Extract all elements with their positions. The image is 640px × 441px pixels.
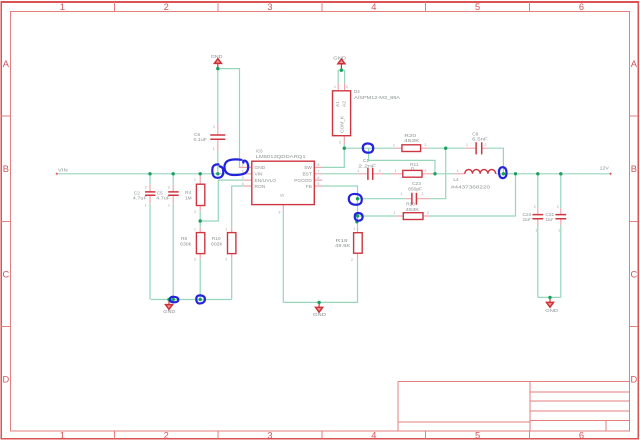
svg-text:D4: D4: [354, 89, 360, 95]
svg-text:1: 1: [457, 169, 459, 173]
svg-text:#4437368220: #4437368220: [451, 185, 490, 191]
svg-text:49.9K: 49.9K: [335, 243, 351, 249]
svg-text:2: 2: [346, 85, 348, 89]
svg-text:0.1uF: 0.1uF: [194, 137, 208, 143]
wire D4 gnd loop: [338, 70, 344, 83]
diode D4 box: [333, 91, 351, 136]
highlight blob FB-R18 junction: [355, 213, 363, 221]
highlight blob R8 junction: [196, 295, 205, 303]
frame row ticks right: [630, 116, 639, 326]
svg-text:1: 1: [60, 430, 65, 440]
svg-text:A: A: [631, 59, 638, 69]
svg-text:R13: R13: [406, 202, 415, 208]
highlight blob IC pins: [224, 159, 248, 175]
svg-text:1: 1: [168, 204, 170, 208]
svg-text:3: 3: [339, 141, 341, 145]
svg-text:SW: SW: [304, 165, 312, 171]
svg-text:6: 6: [579, 2, 584, 12]
svg-text:4: 4: [371, 430, 376, 440]
svg-text:B: B: [3, 164, 9, 174]
svg-text:1: 1: [353, 227, 355, 231]
svg-text:1: 1: [393, 143, 395, 147]
wire C24 branch: [537, 174, 539, 298]
svg-text:2: 2: [213, 125, 215, 129]
wire SW row to R20: [344, 147, 395, 149]
highlight blob GND bus left: [170, 297, 178, 303]
capacitor C23 plates: [412, 193, 417, 205]
svg-text:D: D: [630, 374, 637, 384]
svg-text:5: 5: [475, 430, 480, 440]
wire C2 branch: [149, 174, 151, 300]
svg-text:C1: C1: [363, 158, 369, 164]
svg-text:3: 3: [267, 430, 272, 440]
pin stubs R20: [395, 147, 428, 149]
svg-text:2: 2: [194, 258, 196, 262]
svg-text:2: 2: [379, 169, 381, 173]
pin stubs R4: [199, 174, 201, 211]
ground GND2 stub: [340, 64, 342, 70]
ground GND4 stub: [318, 302, 320, 307]
svg-text:A2: A2: [342, 101, 348, 107]
svg-text:2: 2: [422, 192, 424, 196]
resistor R11: [403, 170, 422, 177]
svg-text:1: 1: [395, 169, 397, 173]
capacitor C2 plates: [145, 192, 156, 195]
pin stubs C9: [465, 147, 488, 149]
title block: [398, 382, 630, 431]
svg-text:1: 1: [60, 2, 65, 12]
svg-text:EN/UVLO: EN/UVLO: [255, 178, 277, 184]
svg-text:C: C: [2, 269, 9, 279]
svg-text:3: 3: [267, 2, 272, 12]
svg-text:RON: RON: [255, 184, 266, 190]
svg-text:4: 4: [371, 2, 376, 12]
ground GND2 triangle: [338, 59, 345, 64]
wire C1 to R11: [384, 173, 392, 175]
svg-text:C: C: [630, 269, 637, 279]
svg-text:L4: L4: [453, 177, 459, 183]
svg-text:GND: GND: [255, 165, 266, 171]
wire C31 branch: [560, 174, 562, 298]
node 12V tick: [609, 173, 612, 176]
svg-text:1: 1: [466, 143, 468, 147]
wire C6 top: [217, 69, 219, 123]
frame row ticks left: [1, 116, 10, 326]
pin stubs R10: [231, 227, 233, 258]
svg-text:FB: FB: [306, 184, 312, 190]
ground GND1 triangle: [214, 59, 221, 64]
svg-text:BST: BST: [302, 172, 311, 178]
ground GND5 triangle: [547, 302, 554, 307]
wire output GND bus: [538, 296, 561, 298]
ground GND1 stub: [217, 64, 219, 69]
ground GND4 triangle: [316, 307, 323, 312]
wire bottom GND bus left: [150, 298, 232, 300]
pin stubs IC6 left: [239, 167, 252, 186]
svg-text:1: 1: [358, 169, 360, 173]
svg-text:GND: GND: [163, 309, 176, 315]
wire SW to D4: [322, 148, 344, 167]
svg-text:2: 2: [168, 186, 170, 190]
svg-text:COM_K: COM_K: [340, 115, 346, 133]
ground GND5 stub: [549, 297, 551, 302]
svg-text:R10: R10: [212, 236, 221, 242]
op-amp IC6 box: [252, 161, 314, 204]
resistor R10: [228, 233, 236, 254]
capacitor C24 plates: [532, 215, 543, 219]
svg-text:A1: A1: [335, 101, 341, 107]
svg-text:7: 7: [318, 170, 320, 174]
svg-text:2: 2: [427, 211, 429, 215]
pin stubs C1: [357, 173, 383, 175]
wire SW branch to L4 node: [369, 148, 435, 174]
pin stubs C24: [537, 208, 539, 225]
svg-text:GND: GND: [333, 55, 347, 61]
svg-text:12V: 12V: [600, 165, 610, 171]
wire IC pad drop: [282, 213, 284, 303]
svg-text:1: 1: [242, 163, 244, 167]
svg-text:2: 2: [164, 2, 169, 12]
wire C9 to output: [488, 148, 503, 174]
pin stub IC6 pad: [282, 205, 284, 213]
pin stubs R18: [357, 228, 359, 259]
svg-text:2: 2: [425, 143, 427, 147]
svg-text:2.2nF: 2.2nF: [358, 163, 376, 169]
pin stubs C5: [172, 184, 174, 203]
svg-text:1: 1: [394, 211, 396, 215]
svg-text:B: B: [631, 164, 637, 174]
highlight blob C6 junction: [212, 164, 223, 177]
ground GND3 triangle: [166, 305, 173, 310]
wire C23 to FB node: [358, 198, 406, 200]
wire FB route: [322, 186, 357, 228]
frame column ticks bottom: [114, 431, 529, 439]
svg-text:2: 2: [557, 205, 559, 209]
wire BST to C1: [322, 173, 357, 175]
svg-text:A: A: [3, 59, 10, 69]
frame column ticks top: [114, 2, 529, 12]
pin stubs IC6 right: [314, 167, 322, 186]
wire D4 drain stub: [343, 145, 345, 149]
wire R11 to L4: [433, 173, 454, 175]
svg-text:D: D: [2, 374, 9, 384]
svg-text:453K: 453K: [404, 138, 421, 144]
pin stubs R13: [396, 215, 430, 217]
resistor R4: [196, 184, 204, 205]
svg-text:1: 1: [535, 229, 537, 233]
wire R8 branch: [199, 221, 201, 300]
highlight blob SW wire: [363, 143, 373, 152]
wire GND1 to IC GND pin: [218, 69, 244, 168]
svg-text:2: 2: [225, 258, 227, 262]
svg-text:VIN: VIN: [58, 168, 68, 174]
wire C23 riser: [430, 148, 446, 199]
svg-text:2: 2: [425, 169, 427, 173]
capacitor C5 plates: [168, 192, 179, 195]
svg-text:0: 0: [411, 166, 414, 172]
svg-text:R4: R4: [185, 190, 191, 196]
svg-text:6.5nF: 6.5nF: [472, 136, 488, 142]
svg-text:2: 2: [194, 210, 196, 214]
svg-text:LM5013QDDARQ1: LM5013QDDARQ1: [256, 154, 306, 160]
svg-text:GND: GND: [211, 54, 223, 60]
svg-text:S: S: [280, 194, 286, 197]
resistor R20: [402, 145, 421, 152]
svg-text:1: 1: [145, 204, 147, 208]
resistor R18: [354, 233, 363, 254]
resistor R13: [403, 213, 423, 220]
svg-text:1: 1: [194, 228, 196, 232]
svg-text:602k: 602k: [211, 241, 223, 247]
wire R20 to C9: [428, 147, 465, 149]
svg-text:GND: GND: [313, 312, 327, 318]
svg-text:4.7uF: 4.7uF: [133, 196, 147, 202]
capacitor C1 plates: [368, 168, 373, 180]
svg-text:1: 1: [213, 147, 215, 151]
svg-text:1: 1: [334, 85, 336, 89]
wire R10 bottom: [231, 259, 233, 300]
svg-text:2: 2: [534, 205, 536, 209]
svg-text:1: 1: [194, 177, 196, 181]
wire EN/UVLO route: [200, 180, 244, 221]
svg-text:4.7uF: 4.7uF: [156, 196, 170, 202]
svg-text:PGOOD: PGOOD: [294, 178, 312, 184]
wire C6 bottom: [217, 151, 219, 174]
wire R4 top/bottom: [199, 211, 201, 221]
node VIN tick: [56, 173, 59, 176]
svg-text:2: 2: [485, 143, 487, 147]
svg-text:6: 6: [318, 176, 320, 180]
wire R18 to GND bus: [283, 259, 357, 303]
svg-text:2: 2: [145, 186, 147, 190]
svg-text:5: 5: [318, 182, 320, 186]
svg-text:6: 6: [579, 430, 584, 440]
pin stubs R8: [199, 227, 201, 258]
svg-text:8: 8: [318, 163, 320, 167]
wire VIN bus: [57, 173, 244, 175]
pin stubs C6: [217, 123, 219, 151]
svg-text:2: 2: [164, 430, 169, 440]
resistor R8: [196, 233, 204, 254]
pin stubs D4: [338, 83, 344, 144]
svg-text:1: 1: [401, 192, 403, 196]
svg-text:630k: 630k: [180, 241, 192, 247]
wire C5 branch: [172, 174, 174, 300]
ground GND3 stub: [168, 300, 170, 305]
svg-text:5: 5: [475, 2, 480, 12]
wire output bus: [500, 173, 611, 175]
capacitor C31 plates: [555, 215, 566, 219]
svg-text:R8: R8: [181, 236, 187, 242]
svg-text:IC6: IC6: [256, 148, 263, 154]
svg-text:2: 2: [351, 258, 353, 262]
svg-text:22uF: 22uF: [545, 217, 553, 223]
svg-text:GND: GND: [545, 308, 558, 314]
svg-text:1M: 1M: [185, 196, 192, 202]
pin stubs L4: [454, 173, 500, 175]
capacitor C6 plates: [210, 135, 225, 139]
svg-text:1: 1: [225, 228, 227, 232]
svg-text:3: 3: [242, 176, 244, 180]
svg-text:22uF: 22uF: [523, 217, 531, 223]
pin stubs C23: [405, 198, 430, 200]
pin stubs C31: [560, 208, 562, 225]
wire RON route: [232, 186, 244, 227]
pin stubs R11: [391, 173, 433, 175]
svg-text:650pF: 650pF: [408, 187, 422, 193]
svg-text:1: 1: [558, 229, 560, 233]
svg-text:R18: R18: [336, 238, 348, 244]
svg-text:9: 9: [279, 211, 281, 215]
highlight blob FB corner: [349, 194, 362, 205]
inductor L4 coil: [465, 170, 496, 174]
svg-text:A/SPM12-M3_86A: A/SPM12-M3_86A: [354, 95, 401, 101]
highlight blob output junction: [499, 167, 507, 178]
svg-text:C23: C23: [412, 181, 421, 187]
pin stubs C2: [149, 184, 151, 203]
svg-text:VIN: VIN: [255, 172, 264, 178]
wire R13 row: [358, 174, 516, 216]
capacitor C9 plates: [476, 142, 482, 154]
svg-text:453K: 453K: [406, 207, 421, 213]
svg-text:4: 4: [242, 182, 244, 186]
